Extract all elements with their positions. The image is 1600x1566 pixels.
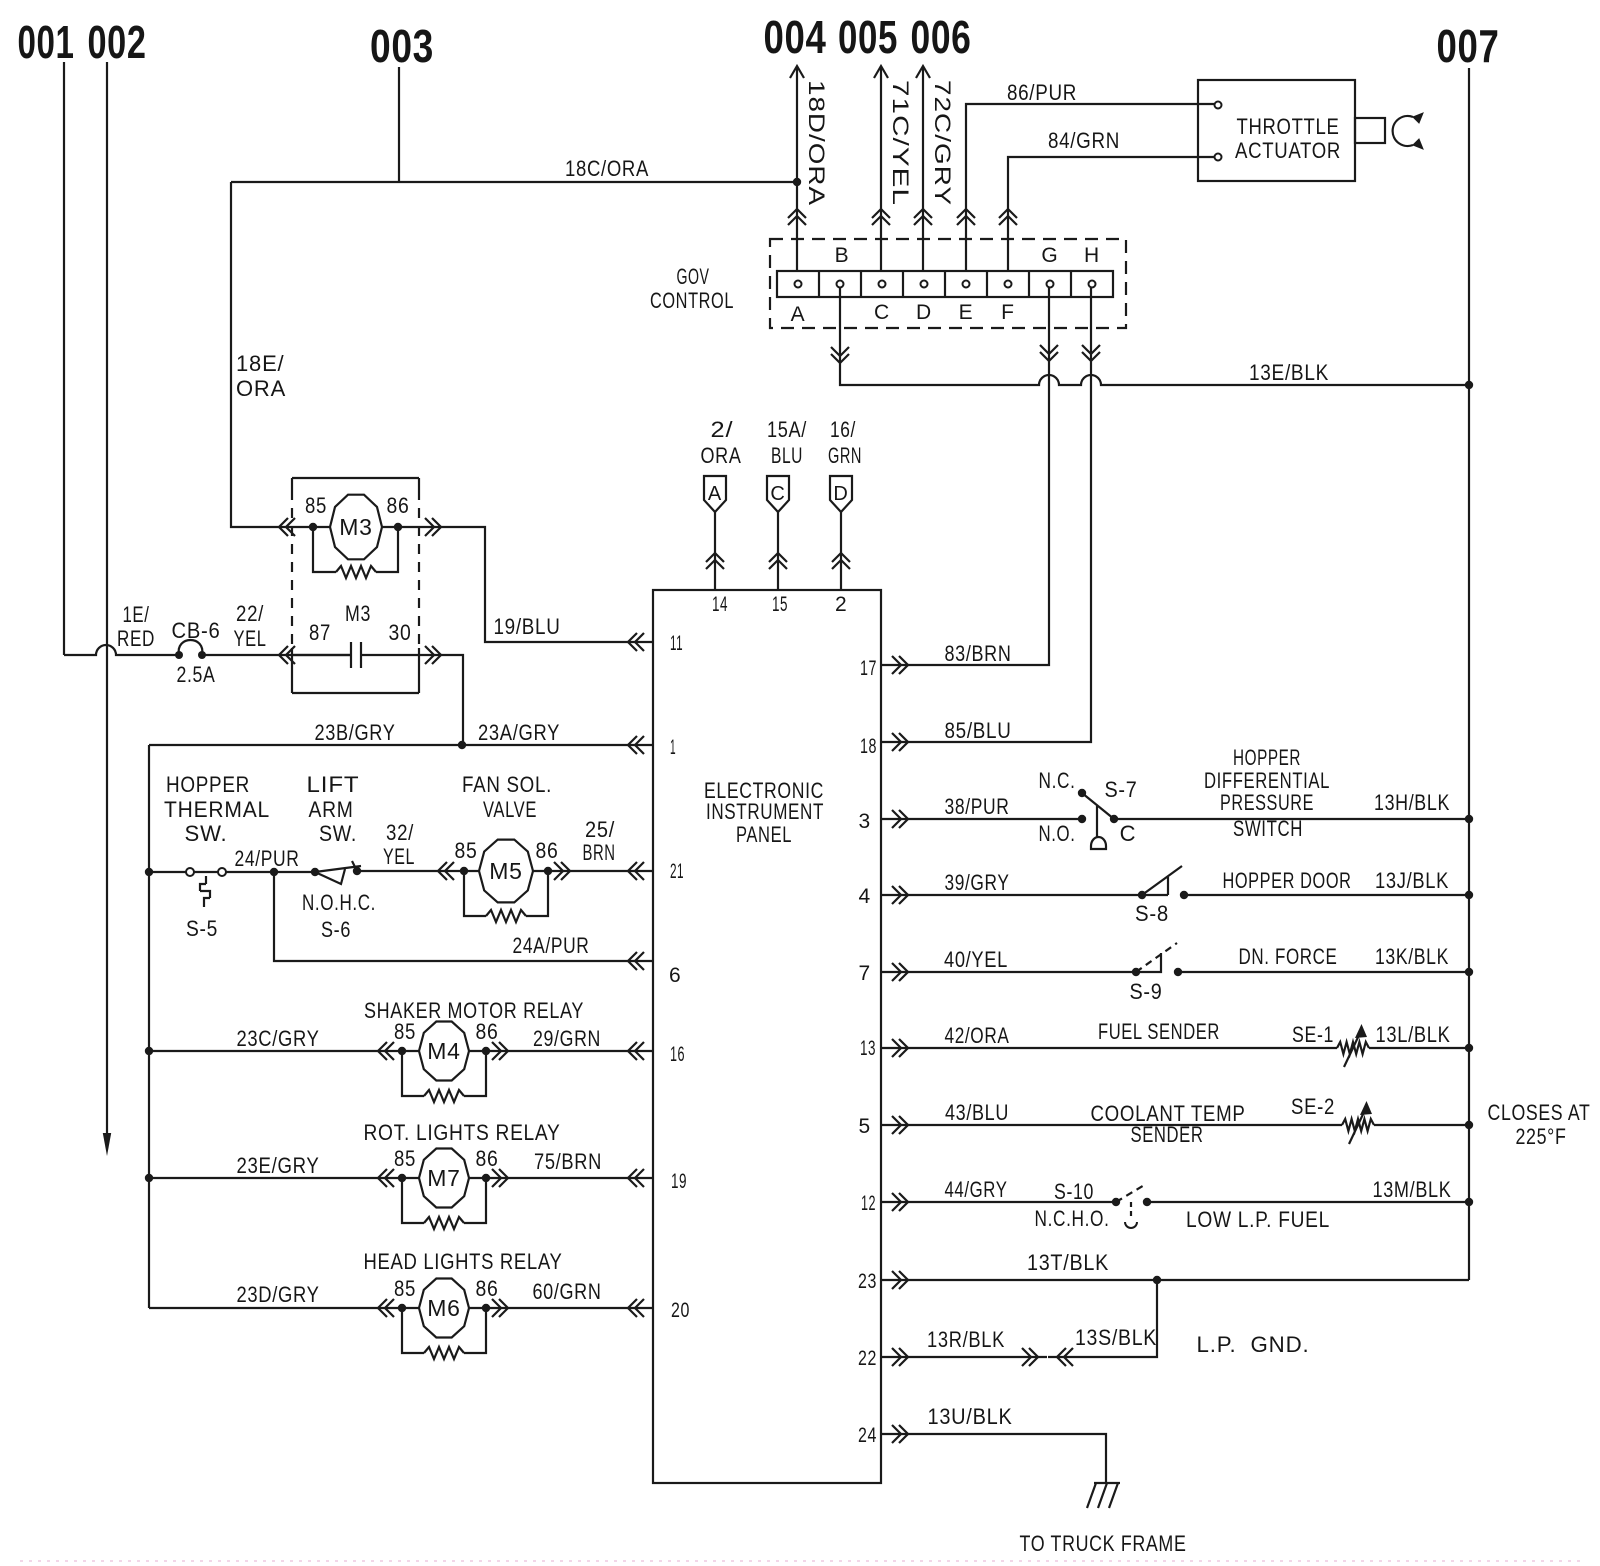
svg-text:B: B	[835, 244, 850, 267]
wire 32/YEL	[357, 820, 464, 880]
svg-text:13M/BLK: 13M/BLK	[1373, 1177, 1452, 1202]
wire 13S/BLK	[1048, 1280, 1157, 1357]
wire 007 bus	[1468, 68, 1470, 1280]
svg-text:21: 21	[670, 860, 684, 883]
wire 25/BRN (M5 to panel 21)	[548, 817, 653, 880]
svg-text:25/: 25/	[585, 817, 615, 842]
svg-text:HEAD LIGHTS RELAY: HEAD LIGHTS RELAY	[364, 1249, 563, 1274]
svg-text:FAN SOL.: FAN SOL.	[462, 772, 552, 797]
svg-text:GOV: GOV	[677, 264, 710, 289]
svg-text:M4: M4	[427, 1038, 461, 1064]
svg-text:BRN: BRN	[583, 840, 616, 865]
svg-text:23E/GRY: 23E/GRY	[237, 1153, 320, 1178]
wire 71C/YEL (GOV pin C)	[872, 66, 913, 277]
svg-text:A: A	[708, 483, 722, 505]
sender SE-1	[1292, 1022, 1369, 1067]
relay M3 coil	[305, 493, 410, 578]
wire 23C/GRY	[149, 1026, 402, 1060]
svg-text:72C/GRY: 72C/GRY	[930, 80, 955, 206]
svg-text:M3: M3	[345, 601, 371, 626]
svg-text:24A/PUR: 24A/PUR	[513, 933, 590, 958]
svg-text:N.O.H.C.: N.O.H.C.	[302, 890, 376, 915]
svg-text:24: 24	[858, 1424, 877, 1447]
svg-text:005: 005	[838, 11, 898, 63]
svg-text:2.5A: 2.5A	[177, 662, 216, 687]
ground to truck frame	[1087, 1483, 1120, 1508]
panel pin labels left side	[669, 593, 847, 1322]
inline connector 13R to 13S	[1022, 1348, 1073, 1366]
svg-text:003: 003	[370, 20, 434, 72]
svg-text:15A/: 15A/	[767, 417, 807, 442]
wire 24A/PUR (to panel 6)	[274, 872, 653, 970]
svg-text:18C/ORA: 18C/ORA	[565, 156, 649, 181]
circuit breaker CB-6 2.5A	[172, 618, 221, 687]
svg-text:H: H	[1084, 244, 1100, 267]
svg-text:13L/BLK: 13L/BLK	[1376, 1022, 1451, 1047]
svg-text:C: C	[770, 483, 785, 505]
svg-text:N.C.H.O.: N.C.H.O.	[1035, 1206, 1110, 1231]
wire 86/PUR (GOV pin E to throttle)	[957, 80, 1214, 277]
label lift arm sw	[307, 772, 360, 846]
svg-text:86: 86	[476, 1019, 499, 1044]
relay M3 coil input wire	[278, 518, 313, 536]
wire 83/BRN (panel 17 to GOV G)	[881, 288, 1058, 674]
svg-text:CONTROL: CONTROL	[650, 288, 734, 313]
svg-text:F: F	[1001, 301, 1015, 324]
svg-text:12: 12	[861, 1192, 876, 1215]
wire 13K/BLK	[1178, 944, 1469, 972]
svg-text:LIFT: LIFT	[307, 772, 360, 797]
svg-text:GRN: GRN	[828, 443, 862, 468]
wire 13M/BLK	[1147, 1177, 1469, 1232]
svg-text:40/YEL: 40/YEL	[944, 947, 1008, 972]
svg-text:002: 002	[88, 16, 147, 68]
svg-text:YEL: YEL	[383, 844, 415, 869]
junction left bus M4 row	[145, 1047, 153, 1055]
label closes at 225F	[1488, 1100, 1591, 1149]
svg-text:S-10: S-10	[1054, 1179, 1094, 1204]
wire 23B/GRY	[149, 720, 462, 745]
svg-text:18: 18	[860, 735, 877, 758]
svg-text:ROT. LIGHTS RELAY: ROT. LIGHTS RELAY	[364, 1120, 561, 1145]
svg-text:85: 85	[394, 1019, 416, 1044]
svg-text:86/PUR: 86/PUR	[1007, 80, 1077, 105]
wire 13R/BLK (panel 22)	[881, 1327, 1047, 1366]
svg-text:22/: 22/	[236, 601, 264, 626]
svg-text:83/BRN: 83/BRN	[945, 641, 1012, 666]
svg-text:85: 85	[455, 838, 478, 863]
svg-text:D: D	[916, 301, 932, 324]
svg-text:CB-6: CB-6	[172, 618, 221, 643]
svg-text:RED: RED	[117, 626, 155, 651]
svg-text:S-8: S-8	[1135, 901, 1169, 926]
svg-text:29/GRN: 29/GRN	[533, 1026, 601, 1051]
svg-text:HOPPER DOOR: HOPPER DOOR	[1223, 868, 1352, 893]
svg-text:E: E	[959, 301, 974, 324]
svg-text:13H/BLK: 13H/BLK	[1374, 790, 1450, 815]
panel pin labels right side	[858, 657, 877, 1447]
junction 13E/BLK on bus	[1465, 381, 1473, 389]
svg-text:23: 23	[858, 1270, 877, 1293]
svg-text:C: C	[1120, 821, 1137, 846]
connector D (16/GRN)	[828, 417, 862, 590]
svg-text:SW.: SW.	[185, 821, 228, 846]
wire 44/GRY (panel 12 to S-10)	[881, 1177, 1116, 1211]
svg-text:18D/ORA: 18D/ORA	[804, 80, 829, 206]
svg-text:LOW L.P. FUEL: LOW L.P. FUEL	[1186, 1207, 1330, 1232]
wire 13L/BLK	[1369, 1022, 1469, 1048]
wire 18E/ORA	[231, 182, 286, 527]
svg-text:87: 87	[309, 620, 331, 645]
svg-text:L.P. GND.: L.P. GND.	[1197, 1332, 1310, 1357]
wire 85/BLU (panel 18 to GOV H)	[881, 288, 1100, 751]
svg-text:13S/BLK: 13S/BLK	[1075, 1325, 1157, 1350]
connector A (2/ORA)	[701, 417, 742, 590]
wire 24/PUR	[226, 846, 315, 872]
wire 72C/GRY (GOV pin D)	[914, 66, 955, 277]
relay M6 head lights relay	[394, 1276, 499, 1359]
svg-text:ORA: ORA	[701, 443, 742, 468]
wire M3 contact 30 output to 23A junction	[361, 646, 463, 745]
svg-text:004: 004	[764, 11, 827, 63]
junction left bus M7 row	[145, 1174, 153, 1182]
label hopper differential pressure switch	[1204, 745, 1330, 841]
svg-text:2/: 2/	[711, 417, 734, 442]
svg-text:15: 15	[772, 593, 788, 616]
fan solenoid valve M5	[455, 838, 559, 922]
wire 38/PUR (panel 3 to S-7)	[881, 794, 1082, 828]
junction 24A/PUR drop	[270, 868, 278, 876]
junction 13L/BLK on bus	[1465, 1044, 1473, 1052]
sender SE-2	[1291, 1094, 1374, 1144]
wire 22/YEL	[202, 601, 351, 664]
electronic instrument panel	[653, 590, 881, 1483]
svg-text:20: 20	[671, 1299, 690, 1322]
svg-text:THERMAL: THERMAL	[164, 797, 270, 822]
svg-text:85: 85	[305, 493, 327, 518]
junction 23A/23B	[458, 741, 466, 749]
svg-text:001: 001	[18, 16, 75, 68]
svg-text:14: 14	[712, 593, 728, 616]
relay M7 rotating lights relay	[394, 1146, 499, 1229]
svg-text:86: 86	[476, 1276, 499, 1301]
wire 13H/BLK	[1114, 790, 1469, 819]
svg-text:5: 5	[859, 1115, 871, 1138]
svg-text:16: 16	[670, 1043, 685, 1066]
svg-text:M7: M7	[427, 1165, 461, 1191]
relay M4 shaker motor relay	[394, 1019, 499, 1102]
junction 18C/ORA to GOV A	[793, 178, 801, 186]
wire 42/ORA (panel 13 to SE-1)	[881, 1019, 1337, 1057]
wire 003	[398, 67, 400, 182]
relay M3 box	[292, 478, 419, 693]
switch S-8	[1135, 866, 1188, 926]
svg-text:YEL: YEL	[234, 626, 267, 651]
wire 1E/RED	[64, 602, 179, 655]
left bus wire 23 gry distribution	[148, 745, 150, 1308]
svg-text:11: 11	[670, 632, 683, 655]
connector GOV CONTROL	[650, 239, 1126, 328]
wire 39/GRY (panel 4 to S-8)	[881, 870, 1142, 904]
switch S-10	[1035, 1179, 1152, 1231]
svg-text:13K/BLK: 13K/BLK	[1375, 944, 1449, 969]
wire 13J/BLK	[1184, 868, 1469, 895]
svg-text:DN. FORCE: DN. FORCE	[1239, 944, 1338, 969]
svg-text:86: 86	[476, 1146, 499, 1171]
svg-text:3: 3	[859, 810, 871, 833]
scan artifact line	[20, 1560, 1580, 1562]
svg-text:6: 6	[669, 964, 681, 987]
svg-text:THROTTLE: THROTTLE	[1237, 114, 1340, 139]
svg-text:39/GRY: 39/GRY	[945, 870, 1010, 895]
svg-text:7: 7	[859, 962, 871, 985]
svg-text:1E/: 1E/	[123, 602, 150, 627]
svg-text:SE-2: SE-2	[1291, 1094, 1335, 1119]
rotation symbol	[1393, 113, 1423, 149]
svg-text:24/PUR: 24/PUR	[235, 846, 300, 871]
svg-text:18E/: 18E/	[236, 351, 285, 376]
svg-text:007: 007	[1437, 20, 1500, 72]
switch S-5 hopper thermal	[149, 868, 226, 941]
svg-text:G: G	[1041, 244, 1058, 267]
relay M3 contact 87-30	[292, 601, 412, 668]
svg-text:FUEL SENDER: FUEL SENDER	[1098, 1019, 1220, 1044]
wire 60/GRN (M6 to panel 20)	[486, 1279, 653, 1317]
svg-text:42/ORA: 42/ORA	[945, 1023, 1010, 1048]
svg-text:SENDER: SENDER	[1131, 1122, 1204, 1147]
wire 84/GRN (GOV pin F to throttle)	[999, 128, 1214, 277]
svg-text:ACTUATOR: ACTUATOR	[1235, 138, 1341, 163]
wire 002	[103, 62, 111, 1156]
svg-text:A: A	[791, 303, 806, 326]
svg-text:225°F: 225°F	[1516, 1124, 1567, 1149]
label hopper thermal sw	[164, 772, 270, 846]
label fan sol valve	[462, 772, 552, 822]
svg-text:13T/BLK: 13T/BLK	[1027, 1250, 1109, 1275]
svg-text:HOPPER: HOPPER	[1233, 745, 1301, 770]
svg-text:M5: M5	[489, 858, 523, 884]
svg-text:17: 17	[860, 657, 877, 680]
svg-text:PANEL: PANEL	[736, 822, 792, 847]
svg-text:HOPPER: HOPPER	[166, 772, 250, 797]
svg-text:85/BLU: 85/BLU	[945, 718, 1012, 743]
junction 13M/BLK on bus	[1465, 1198, 1473, 1206]
svg-text:30: 30	[389, 620, 412, 645]
svg-text:19: 19	[671, 1170, 687, 1193]
svg-text:INSTRUMENT: INSTRUMENT	[706, 799, 824, 824]
connector C (15A/BLU)	[767, 417, 807, 590]
svg-text:85: 85	[394, 1276, 416, 1301]
svg-text:CLOSES AT: CLOSES AT	[1488, 1100, 1591, 1125]
svg-text:VALVE: VALVE	[483, 797, 537, 822]
junction 13T to LP ground drop	[1153, 1276, 1161, 1284]
junction coolant row on bus	[1465, 1121, 1473, 1129]
svg-text:16/: 16/	[830, 417, 856, 442]
svg-text:38/PUR: 38/PUR	[945, 794, 1010, 819]
svg-text:M3: M3	[339, 514, 373, 540]
svg-text:BLU: BLU	[771, 443, 803, 468]
svg-text:22: 22	[858, 1347, 877, 1370]
svg-text:006: 006	[911, 11, 972, 63]
svg-text:S-9: S-9	[1130, 979, 1163, 1004]
svg-text:SE-1: SE-1	[1292, 1022, 1334, 1047]
junction 13H/BLK on bus	[1465, 815, 1473, 823]
svg-text:75/BRN: 75/BRN	[534, 1149, 602, 1174]
svg-text:85: 85	[394, 1146, 416, 1171]
svg-text:ORA: ORA	[236, 376, 286, 401]
svg-text:86: 86	[536, 838, 559, 863]
svg-text:60/GRN: 60/GRN	[533, 1279, 602, 1304]
svg-text:M6: M6	[427, 1295, 461, 1321]
wire 18D/ORA (GOV pin A)	[788, 66, 829, 277]
svg-text:23B/GRY: 23B/GRY	[315, 720, 396, 745]
wire 75/BRN (M7 to panel 19)	[486, 1149, 653, 1187]
svg-text:13E/BLK: 13E/BLK	[1249, 360, 1329, 385]
wire 23A/GRY (to panel 1)	[462, 720, 653, 754]
svg-text:19/BLU: 19/BLU	[494, 614, 561, 639]
wire 13T/BLK (panel 23 to bus)	[881, 1250, 1469, 1289]
wire 001	[63, 62, 65, 655]
wire to bus from SE-2	[1374, 1124, 1469, 1126]
svg-text:N.C.: N.C.	[1039, 768, 1076, 793]
svg-text:23A/GRY: 23A/GRY	[478, 720, 560, 745]
svg-text:43/BLU: 43/BLU	[945, 1100, 1009, 1125]
svg-text:2: 2	[835, 593, 847, 616]
wire 13E/BLK (GOV pin B to 007 bus)	[831, 288, 1469, 385]
svg-text:23C/GRY: 23C/GRY	[237, 1026, 320, 1051]
wire 29/GRN (M4 to panel 16)	[486, 1026, 653, 1060]
svg-text:13: 13	[860, 1037, 876, 1060]
wire 43/BLU (panel 5 to SE-2)	[881, 1100, 1342, 1147]
junction 13K/BLK on bus	[1465, 968, 1473, 976]
svg-text:1: 1	[670, 736, 676, 759]
svg-text:D: D	[833, 483, 848, 505]
svg-text:13U/BLK: 13U/BLK	[928, 1404, 1013, 1429]
junction left bus fan row	[145, 868, 153, 876]
svg-text:23D/GRY: 23D/GRY	[237, 1282, 320, 1307]
svg-text:32/: 32/	[386, 820, 414, 845]
svg-text:13J/BLK: 13J/BLK	[1375, 868, 1449, 893]
throttle actuator	[1198, 80, 1385, 181]
switch S-9	[1130, 943, 1183, 1004]
switch S-7	[1039, 768, 1138, 849]
svg-text:86: 86	[387, 493, 410, 518]
junction 13J/BLK on bus	[1465, 891, 1473, 899]
wire 19/BLU (M3 86 to panel 11)	[398, 518, 653, 651]
svg-text:13R/BLK: 13R/BLK	[927, 1327, 1005, 1352]
wire 23E/GRY	[149, 1153, 402, 1187]
svg-text:ARM: ARM	[309, 797, 354, 822]
svg-text:84/GRN: 84/GRN	[1048, 128, 1120, 153]
wire 23D/GRY	[149, 1282, 402, 1317]
svg-text:44/GRY: 44/GRY	[945, 1177, 1008, 1202]
svg-text:71C/YEL: 71C/YEL	[888, 80, 913, 206]
svg-text:S-6: S-6	[321, 917, 351, 942]
svg-text:N.O.: N.O.	[1039, 821, 1076, 846]
switch S-6 lift arm (N.O.H.C.)	[302, 861, 376, 942]
svg-text:SW.: SW.	[319, 821, 357, 846]
wire 40/YEL (panel 7 to S-9)	[881, 947, 1136, 981]
wire 13U/BLK (panel 24 to truck frame)	[881, 1404, 1106, 1483]
svg-text:S-5: S-5	[186, 916, 218, 941]
svg-text:TO TRUCK FRAME: TO TRUCK FRAME	[1020, 1531, 1187, 1556]
wire 18C/ORA	[231, 156, 797, 182]
svg-text:4: 4	[859, 885, 871, 908]
svg-text:PRESSURE: PRESSURE	[1220, 790, 1314, 815]
svg-text:C: C	[874, 301, 890, 324]
svg-text:S-7: S-7	[1105, 777, 1138, 802]
